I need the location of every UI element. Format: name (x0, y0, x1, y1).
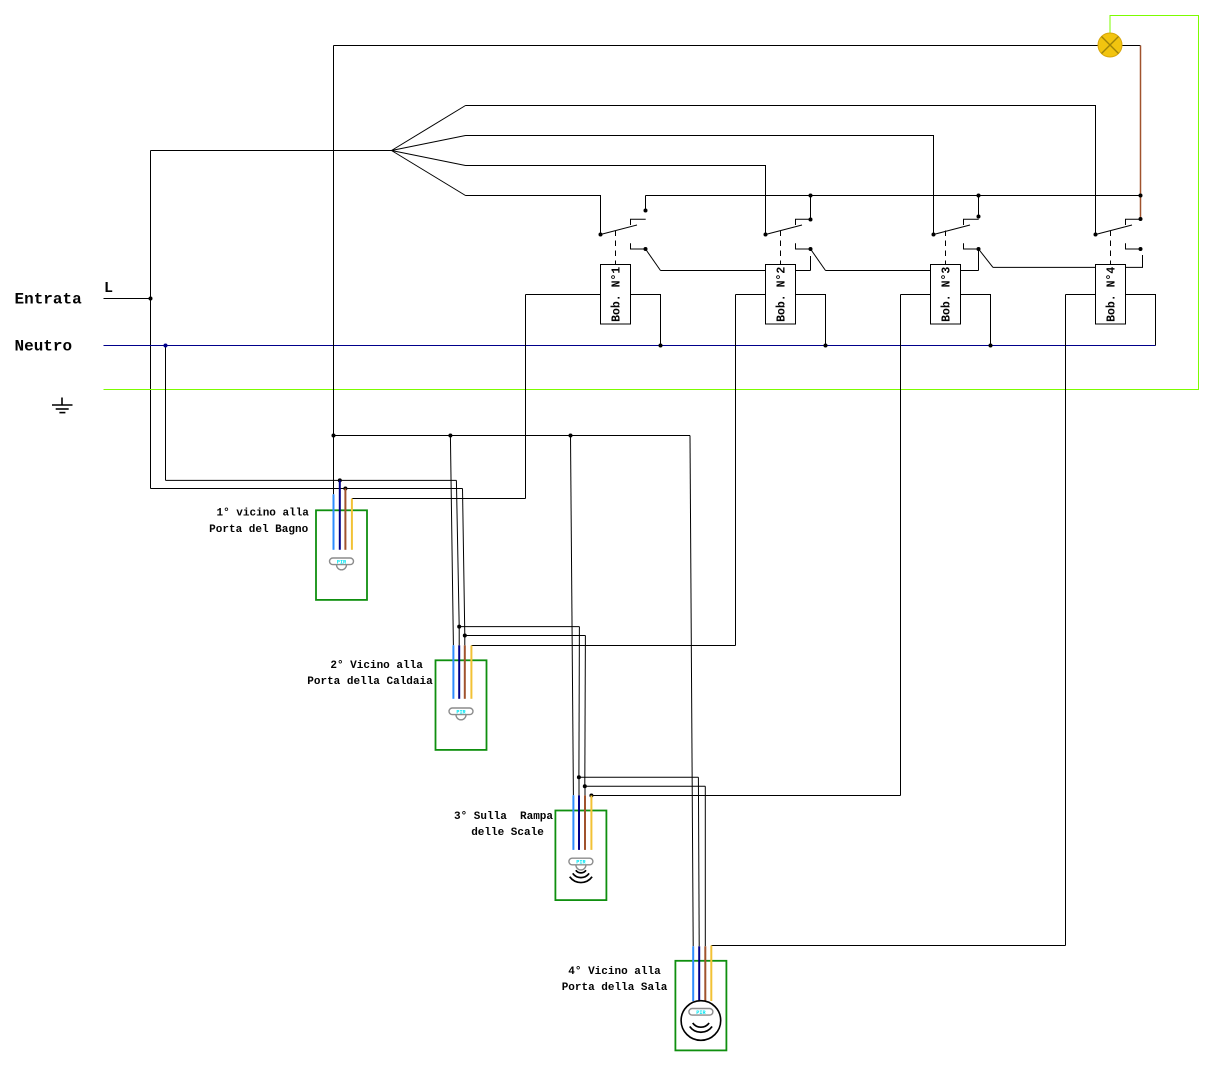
wire neutral drop PIR3-PIR4 (697, 777, 700, 946)
junction PIR1 neutral tap (338, 478, 342, 482)
junction PIR1 live tap (343, 487, 347, 491)
wire lamp drop (brown) to relay K4 contact (1140, 46, 1142, 220)
node relay K2 pole-B fixed (809, 247, 813, 251)
wire coil K2 left terminal (736, 294, 766, 296)
wire coil K1 drive horizontal (352, 498, 526, 500)
relay K1 mechanical link (dashed) (615, 231, 617, 265)
relay K2 mechanical link (dashed) (780, 231, 782, 265)
pushbutton PIR4 enclosure (675, 961, 726, 1051)
pushbutton PIR2 enclosure (436, 660, 487, 750)
wire PIR4 neutral lead (dark blue) (698, 946, 700, 1001)
svg-text:PIR: PIR (696, 1010, 706, 1016)
junction coil K3 / Neutro (989, 344, 993, 348)
node relay K4 pole-A fixed (1139, 217, 1143, 221)
relay coil Bob. N°4 (1096, 265, 1126, 325)
wire live slant PIR1-PIR2 (463, 489, 465, 636)
lamp E1 (1098, 33, 1122, 57)
junction coil K1 / Neutro (659, 344, 663, 348)
wire fan line 3 to relay K2 common (466, 166, 766, 235)
wire PIR1 lamp-return lead (light blue) (333, 494, 335, 550)
svg-text:Porta del Bagno: Porta del Bagno (209, 524, 308, 536)
wire lamp right to drop (1122, 45, 1141, 47)
svg-text:Porta della Sala: Porta della Sala (562, 982, 668, 994)
wire PIR3 neutral lead (dark blue) (578, 777, 580, 795)
wire PIR1 live lead (brown) (344, 489, 346, 550)
wire coil K3 drive riser (900, 295, 902, 796)
wire top bus linking relay fixed contacts (646, 195, 1141, 197)
relay K3 mechanical link (dashed) (945, 231, 947, 265)
PIR4 sensor round housing (681, 1001, 721, 1041)
wire neutral drop PIR2-PIR3 (578, 627, 581, 778)
svg-text:Porta della Caldaia: Porta della Caldaia (307, 676, 433, 688)
wire PIR2 live lead (brown) (464, 636, 466, 646)
junction Neutro drop (164, 344, 168, 348)
wire coil K1 drive riser (525, 295, 527, 499)
wire K3 pole-B fixed riser (978, 249, 980, 271)
wire neutral drop (165, 346, 167, 481)
wire PIR1 coil-drive lead (yellow) (351, 499, 353, 550)
node relay K3 common (932, 233, 936, 237)
junction lamp return bus B (448, 434, 452, 438)
node relay K1 common (599, 233, 603, 237)
wire coil K4 drive riser (1065, 295, 1067, 946)
wire lamp return vertical (333, 46, 335, 495)
wire coil K3 drive horizontal (591, 795, 900, 797)
node relay K1 pole-A fixed (644, 209, 648, 213)
wire PIR3 lamp-return lead (light blue) (572, 795, 574, 850)
node relay K4 pole-B fixed (1139, 247, 1143, 251)
wire coil K4 right terminal to Neutro (1126, 295, 1156, 346)
node relay K3 pole-B fixed (977, 247, 981, 251)
wire neutral run to PIR1 (166, 479, 457, 481)
svg-text:L: L (104, 280, 113, 297)
wire coil K2 drive horizontal (471, 645, 735, 647)
wire coil K3 right terminal to Neutro (961, 295, 991, 346)
svg-text:PIR: PIR (456, 710, 466, 716)
svg-text:3° Sulla Rampa: 3° Sulla Rampa (454, 811, 553, 823)
wire earth (green) loop from lamp (104, 16, 1199, 390)
svg-text:Bob. N°1: Bob. N°1 (611, 267, 624, 322)
wire fan line 4 to relay K1 common (466, 196, 601, 235)
wire PIR2 coil-drive lead (yellow) (470, 646, 472, 699)
wire live vertical (L rail) (150, 151, 152, 489)
PIR4 sensor pill (689, 1009, 713, 1016)
junction lamp return bus A (332, 434, 336, 438)
wire coil K3 left terminal (901, 294, 931, 296)
node relay K4 common (1094, 233, 1098, 237)
junction bus / K3 fixed (977, 194, 981, 198)
wire coil K2 right terminal to Neutro (796, 295, 826, 346)
wire fan line 2 to relay K3 common (466, 136, 934, 235)
wire PIR2 lamp-return lead (light blue) (452, 645, 454, 699)
wire coil K4 left terminal (1066, 294, 1096, 296)
node relay K1 pole-B fixed (644, 247, 648, 251)
wire live run to PIR1 (151, 488, 463, 490)
wire PIR3 live lead (brown) (584, 786, 586, 795)
relay K2 contact assembly (766, 196, 826, 271)
wire fan line 1 to relay K4 common (466, 106, 1096, 235)
wire live top horizontal to fan node (151, 150, 392, 152)
PIR3 detection arcs (570, 870, 592, 882)
wire lamp feed horizontal (334, 45, 1099, 47)
wire K1 pole-B output to K2 (661, 270, 811, 272)
wire Neutro line (blue) (104, 345, 1156, 347)
relay coil Bob. N°1 (601, 265, 631, 325)
relay K4 contact assembly (1096, 219, 1141, 249)
svg-text:PIR: PIR (576, 860, 586, 866)
junction PIR2 neutral tap (457, 625, 461, 629)
junction bus / lamp drop (1139, 194, 1143, 198)
junction coil K2 / Neutro (824, 344, 828, 348)
wire K2 pole-B fixed riser (810, 256, 812, 271)
wire lamp return bus horizontal (334, 435, 691, 437)
node fan-out of live feed to relay commons (392, 106, 466, 196)
wire lamp return slant to PIR2 (450, 436, 453, 646)
ground symbol (52, 398, 73, 413)
wire lamp return slant to PIR4 (690, 436, 693, 947)
node relay K3 pole-A fixed (977, 215, 981, 219)
svg-text:Entrata: Entrata (15, 291, 83, 309)
wire neutral run PIR3 (579, 776, 699, 778)
node relay K2 common (764, 233, 768, 237)
wire live drop PIR2-PIR3 (584, 636, 587, 787)
junction PIR3 neutral tap (577, 775, 581, 779)
junction Entrata / live rail (149, 297, 153, 301)
pushbutton PIR1 enclosure (316, 510, 367, 600)
wire live run PIR2 (465, 635, 586, 637)
junction PIR3 coil-drive tap (589, 794, 593, 798)
pushbutton PIR3 enclosure (555, 811, 606, 901)
wire coil K1 left terminal (526, 294, 601, 296)
wire neutral run PIR2 (459, 626, 579, 628)
wire PIR4 lamp-return lead (light blue) (692, 946, 694, 1001)
svg-text:Bob. N°3: Bob. N°3 (941, 267, 954, 322)
relay coil Bob. N°2 (766, 265, 796, 325)
PIR3 sensor pill (569, 858, 593, 870)
wire PIR3 coil-drive lead (yellow) (590, 796, 592, 850)
svg-text:delle Scale: delle Scale (471, 827, 544, 839)
wire PIR1 neutral lead (dark blue) (339, 480, 341, 549)
svg-text:Neutro: Neutro (15, 338, 73, 356)
wire live run PIR3 (585, 785, 706, 787)
svg-text:1° vicino alla: 1° vicino alla (216, 508, 309, 520)
wire L live feed from Entrata (104, 298, 151, 300)
wire coil K1 right terminal to Neutro (631, 295, 661, 346)
node relay K2 pole-A fixed (809, 218, 813, 222)
wire coil K2 drive riser (735, 295, 737, 646)
wire K3 pole-B output to K4 (993, 255, 1143, 267)
wire PIR4 coil-drive lead (yellow) (710, 946, 712, 1002)
svg-text:Bob. N°2: Bob. N°2 (776, 267, 789, 322)
junction lamp return bus C (569, 434, 573, 438)
relay K1 contact assembly (601, 196, 661, 271)
PIR2 sensor pill (449, 708, 473, 720)
PIR1 sensor pill (330, 558, 354, 570)
relay coil Bob. N°3 (931, 265, 961, 325)
wire coil K4 drive horizontal (711, 945, 1065, 947)
PIR4 detection arcs (690, 1023, 712, 1032)
wire PIR4 live lead (brown) (704, 946, 706, 1001)
wire neutral slant PIR1-PIR2 (456, 480, 459, 626)
wire PIR2 neutral lead (dark blue) (458, 627, 460, 646)
svg-text:2° Vicino alla: 2° Vicino alla (330, 660, 423, 672)
svg-text:4° Vicino alla: 4° Vicino alla (568, 966, 661, 978)
svg-text:Bob. N°4: Bob. N°4 (1106, 267, 1119, 322)
wire lamp return slant to PIR3 (571, 436, 574, 796)
wire K2 pole-B output to K3 (826, 270, 979, 272)
relay K3 contact assembly (934, 196, 994, 268)
junction PIR2 live tap (463, 634, 467, 638)
junction PIR3 live tap (583, 784, 587, 788)
junction bus / K2 fixed (809, 194, 813, 198)
wire live drop PIR3-PIR4 (704, 786, 706, 946)
relay K4 mechanical link (dashed) (1110, 231, 1112, 265)
svg-text:PIR: PIR (337, 560, 347, 566)
